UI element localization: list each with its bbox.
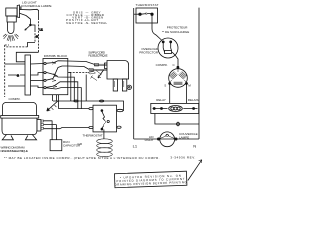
svg-text:N: N bbox=[193, 143, 196, 148]
svg-text:3-34936 REV.: 3-34936 REV. bbox=[170, 155, 195, 159]
svg-text:COUVERCLE LAMPE: COUVERCLE LAMPE bbox=[21, 4, 52, 8]
svg-text:-N-: -N- bbox=[85, 21, 90, 25]
svg-text:LIGHT: LIGHT bbox=[145, 138, 154, 142]
svg-text:DIAGRAMME ELECTRIQUE: DIAGRAMME ELECTRIQUE bbox=[1, 149, 29, 153]
svg-text:RELAY: RELAY bbox=[156, 98, 166, 102]
svg-text:M: M bbox=[188, 83, 191, 87]
svg-text:S: S bbox=[164, 83, 166, 87]
svg-text:C: C bbox=[173, 63, 176, 67]
svg-text:PROTECTOR: PROTECTOR bbox=[139, 51, 159, 55]
svg-text:COMPR.: COMPR. bbox=[156, 63, 168, 67]
svg-text:THERMOSTAT: THERMOSTAT bbox=[136, 3, 159, 7]
svg-text:PROTECTEUR: PROTECTEUR bbox=[167, 25, 189, 29]
svg-text:L1: L1 bbox=[40, 28, 44, 32]
svg-text:G: G bbox=[17, 73, 20, 77]
svg-text:COMPR.: COMPR. bbox=[9, 97, 21, 101]
svg-text:LAMPE: LAMPE bbox=[179, 135, 189, 139]
svg-text:** MAY BE LOCATED INSIDE C: ** MAY BE LOCATED INSIDE COMPR...(PEUT E… bbox=[4, 155, 160, 160]
svg-text:** DE SURCHARGE: ** DE SURCHARGE bbox=[162, 30, 189, 34]
svg-text:L1: L1 bbox=[133, 143, 138, 148]
svg-text:GR: GR bbox=[78, 142, 83, 146]
svg-text:RELAIS: RELAIS bbox=[188, 98, 199, 102]
svg-text:NEUTRE: NEUTRE bbox=[66, 21, 83, 25]
svg-text:DISTRIB. BLOCK: DISTRIB. BLOCK bbox=[44, 54, 68, 58]
svg-text:NEUTRAL: NEUTRAL bbox=[91, 21, 107, 25]
svg-text:FILS ELECTRIQUE: FILS ELECTRIQUE bbox=[88, 54, 107, 58]
svg-text:THERMOSTAT: THERMOSTAT bbox=[83, 134, 103, 138]
